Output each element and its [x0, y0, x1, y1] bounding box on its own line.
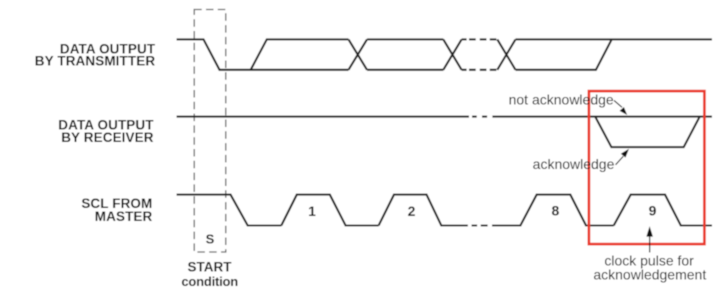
svg-text:condition: condition: [181, 274, 238, 289]
label: DATA OUTPUT BY RECEIVER: [58, 118, 154, 145]
svg-text:8: 8: [552, 202, 560, 218]
wire: transmitter envelope bit2: [367, 39, 443, 69]
wire: SCL pulse 2: [379, 195, 468, 226]
arrow: acknowledge pointer: [616, 149, 629, 165]
svg-text:not acknowledge: not acknowledge: [509, 91, 614, 107]
node: transmitter crossover X1: [349, 39, 368, 69]
arrow: clock pulse pointer (vertical, up): [646, 226, 653, 252]
wire: receiver dashed break: [472, 116, 487, 118]
wire: transmitter first bit rise + high rail: [251, 39, 349, 69]
svg-text:MASTER: MASTER: [95, 209, 153, 224]
label: SCL FROM MASTER: [81, 196, 152, 224]
svg-text:2: 2: [408, 203, 416, 219]
label: DATA OUTPUT BY TRANSMITTER: [35, 42, 156, 69]
svg-text:BY RECEIVER: BY RECEIVER: [61, 130, 154, 145]
red highlight box around 9th clock pulse: [589, 91, 705, 244]
arrow: not acknowledge pointer: [614, 100, 627, 115]
wire: transmitter last bit envelope, high to end: [516, 38, 713, 40]
wire: transmitter SDA start high + fall + low rail: [177, 39, 349, 69]
wire: transmitter dashed break high: [462, 38, 497, 40]
wire: SCL pulse 8: [492, 195, 614, 226]
svg-text:9: 9: [649, 202, 657, 218]
svg-text:1: 1: [308, 203, 316, 219]
svg-text:BY TRANSMITTER: BY TRANSMITTER: [35, 53, 156, 68]
svg-text:S: S: [206, 232, 215, 247]
node: transmitter crossover X2: [443, 39, 461, 69]
svg-text:acknowledgement: acknowledgement: [593, 267, 706, 283]
wire: SCL pulse 1: [281, 195, 378, 226]
wire: receiver SDA line left solid: [177, 116, 469, 118]
wire: receiver not-acknowledge line (stays high): [492, 116, 712, 118]
svg-text:START: START: [188, 260, 233, 275]
wire: SCL dashed break: [472, 224, 488, 226]
wire: transmitter low rail rising to released high: [516, 39, 612, 69]
wire: SCL pulse 9: [614, 195, 712, 226]
wire: receiver acknowledge valley: [595, 117, 700, 148]
node: transmitter crossover X3: [497, 39, 515, 69]
wire: transmitter dashed break low: [462, 69, 497, 71]
wire: SCL start high + fall: [177, 195, 282, 226]
clock number labels: [308, 202, 657, 219]
START condition dashed box: [194, 10, 226, 253]
svg-text:acknowledge: acknowledge: [533, 156, 615, 172]
